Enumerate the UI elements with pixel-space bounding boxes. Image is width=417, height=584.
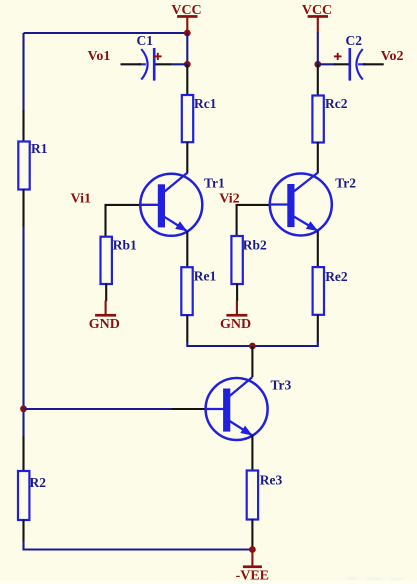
svg-text:Rb2: Rb2	[243, 237, 267, 252]
svg-text:Rb1: Rb1	[113, 238, 137, 253]
wire Rc2 to Tr2 collector	[317, 142, 319, 173]
ground GND (right)	[220, 301, 251, 332]
power VCC (right)	[302, 3, 332, 33]
wire Rc1 top lead	[186, 64, 188, 95]
transistor Tr1	[140, 173, 225, 236]
wire Vi1 node down to Rb1	[104, 204, 106, 237]
junction node -VEE	[249, 546, 256, 553]
wire Tr1 emitter to Re1	[186, 231, 188, 268]
ground GND (left)	[89, 301, 120, 332]
wire VCC left vertical	[186, 33, 188, 64]
wire Rb2 to ground lead	[236, 284, 238, 302]
resistor R2	[18, 471, 46, 520]
svg-text:C2: C2	[346, 33, 363, 48]
svg-text:Re1: Re1	[194, 269, 217, 284]
junction node VCC right / top of Rc2	[314, 61, 321, 68]
svg-text:-VEE: -VEE	[236, 568, 269, 583]
capacitor C1	[138, 48, 161, 81]
svg-text:Rc2: Rc2	[325, 96, 348, 111]
transistor Tr2	[269, 173, 356, 236]
wire Re2 bottom lead	[317, 314, 319, 342]
svg-text:C1: C1	[137, 33, 154, 48]
wire Re3 bottom lead	[251, 519, 253, 550]
resistor Re3	[247, 471, 283, 520]
svg-text:Tr2: Tr2	[335, 175, 356, 190]
junction node emitter bus / Tr3 collector	[249, 343, 256, 350]
wire bottom horizontal (to -VEE node)	[24, 541, 253, 550]
wire emitter bus horizontal	[187, 342, 317, 346]
wire Rc2 top lead	[317, 64, 319, 96]
wire C2 positive stub	[318, 63, 335, 65]
resistor Rc1	[182, 95, 217, 142]
wire Tr3 emitter to Re3	[251, 435, 253, 471]
resistor R1	[18, 141, 47, 190]
wire Tr3 base lead	[172, 408, 207, 410]
wire R2 top lead	[22, 436, 24, 472]
junction node C1 / Rc1	[184, 61, 191, 68]
wire Vi2 to Tr2 base	[236, 204, 271, 206]
junction node left rail / Tr3 base	[20, 405, 27, 412]
transistor Tr3	[205, 377, 291, 440]
wire C1 positive stub	[171, 63, 188, 65]
svg-text:Tr1: Tr1	[204, 175, 225, 190]
svg-text:Vo1: Vo1	[88, 49, 111, 64]
wire Re1 bottom lead	[186, 315, 188, 343]
svg-text:Rc1: Rc1	[194, 96, 217, 111]
wire R1 bottom lead	[22, 189, 24, 228]
svg-text:GND: GND	[220, 317, 251, 332]
svg-text:Vo2: Vo2	[381, 49, 404, 64]
wire Rb1 to ground lead	[105, 284, 107, 302]
svg-text:Tr3: Tr3	[271, 378, 292, 393]
wire Tr3 base long segment	[24, 408, 173, 410]
wire R2 bottom lead	[22, 520, 24, 542]
svg-text:R2: R2	[30, 475, 47, 490]
svg-text:Re2: Re2	[325, 269, 348, 284]
wire Vi1 to Tr1 base	[105, 204, 142, 206]
svg-text:Re3: Re3	[260, 473, 283, 488]
power -VEE	[236, 551, 269, 583]
wire Tr2 emitter to Re2	[317, 231, 319, 268]
wire left rail upper segment	[22, 33, 24, 111]
resistor Re2	[313, 267, 348, 315]
wire C2 plate lead	[334, 63, 350, 65]
wire VCC right vertical	[317, 32, 319, 64]
svg-text:R1: R1	[31, 141, 48, 156]
wire left rail middle segment	[22, 227, 24, 437]
junction node VCC left / top rail	[184, 30, 191, 37]
wire Vo1 output lead	[121, 63, 142, 65]
wire C1 plate lead	[154, 63, 171, 65]
resistor Re1	[181, 267, 216, 315]
resistor Rb1	[101, 237, 138, 284]
wire Vo2 output lead	[363, 63, 384, 65]
wire Vi2 node down to Rb2	[236, 204, 238, 237]
wire Tr3 collector lead	[251, 346, 253, 377]
resistor Rc2	[312, 96, 347, 143]
wire Rc1 to Tr1 collector	[186, 142, 188, 174]
power VCC (left)	[171, 3, 201, 33]
capacitor C2	[334, 48, 366, 81]
wire top horizontal (left rail to VCC)	[24, 32, 188, 34]
wire R1 top lead	[22, 110, 24, 142]
svg-text:Vi1: Vi1	[71, 191, 91, 206]
resistor Rb2	[231, 236, 267, 284]
svg-text:GND: GND	[89, 317, 120, 332]
